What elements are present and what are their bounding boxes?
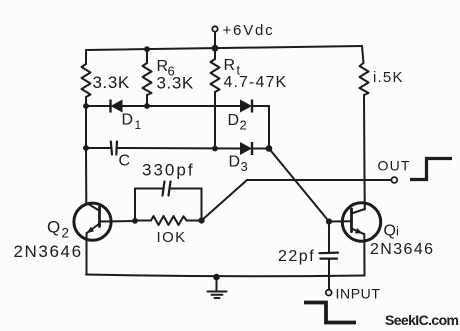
node supply tap junction [212,45,219,52]
svg-text:i.5K: i.5K [373,69,404,86]
wire 10K right stem [187,220,202,222]
node ground junction [213,274,220,281]
svg-text:SeekIC.com: SeekIC.com [385,312,459,328]
wire 330pf loop right vertical [201,189,203,221]
svg-text:D: D [229,154,241,171]
wire D2-D3 right vertical [268,106,270,149]
svg-text:C: C [119,153,131,170]
svg-text:IOK: IOK [157,229,187,246]
svg-text:D: D [122,112,134,129]
resistor Rt zigzag [211,59,220,92]
wire Rt top stem [214,48,216,59]
svg-text:330pf: 330pf [142,161,195,180]
capacitor C2 330pf plates [163,182,171,196]
node D3 cathode junction [266,145,273,152]
resistor R1 3.3K zigzag [82,64,91,97]
terminal +6Vdc open circle [212,26,217,31]
wire right rail top [362,46,364,63]
svg-text:R: R [157,58,169,75]
wire Q1 emitter [363,234,365,276]
svg-text:OUT: OUT [378,158,411,174]
svg-text:22pf: 22pf [278,248,315,265]
wire ground rail [86,275,364,277]
svg-text:2: 2 [240,118,247,133]
node row1 left junction [83,103,89,109]
node Q1 base junction [326,218,332,224]
wire top supply rail [86,46,362,50]
svg-text:Q: Q [47,218,60,237]
node Q2 base junction [132,218,138,224]
svg-text:3.3K: 3.3K [93,73,130,92]
diode D1 [111,100,123,113]
diode D3 [240,142,252,155]
waveform OUT step [410,159,452,180]
node 10K right junction [198,217,204,223]
wire left rail upper [85,50,87,64]
diode D2 [240,100,252,113]
wire Q2 base lead [100,220,136,223]
terminal INPUT open circle [326,290,332,296]
svg-text:Q: Q [384,223,396,240]
resistor R4 1.5K zigzag [360,63,369,95]
wire diagonal 10K node to OUT line [202,180,248,221]
wire R6 bottom stem [146,95,148,106]
wire 10K left stem [135,220,151,222]
node Rt bottom junction [212,146,218,152]
wire row1 left segment [86,105,111,107]
svg-text:3.3K: 3.3K [157,74,194,93]
wire row1 right segment [252,105,269,107]
transistor Q1 [342,203,380,241]
svg-text:2N3646: 2N3646 [370,241,434,258]
wire R6 top stem [146,50,148,64]
svg-text:R: R [224,57,236,74]
svg-text:D: D [228,112,240,129]
svg-text:i: i [396,224,399,239]
wire 330pf loop left vertical [134,189,136,221]
wire row2 right segment [252,148,269,150]
wire row2 middle segment [118,147,241,150]
svg-text:+6Vdc: +6Vdc [223,22,275,39]
svg-text:1: 1 [135,118,142,132]
wire Q2 collector [85,148,87,203]
wire ground symbol stem [216,277,218,291]
capacitor C [111,142,117,155]
resistor R6 zigzag [143,63,152,95]
svg-text:INPUT: INPUT [336,286,381,302]
svg-text:3: 3 [241,159,248,174]
wire Q1 base lead [329,220,352,222]
wire row2 left segment [86,147,110,149]
node R6 bottom junction [144,103,150,109]
wire Rt bottom stem [214,92,216,149]
node R6 top junction [144,46,150,52]
wire +6Vdc stem [214,32,216,49]
wire 330pf loop top left [135,188,162,190]
wire 330pf loop top right [171,188,202,190]
wire Q1 collector [363,95,366,210]
svg-text:2: 2 [62,226,70,241]
transistor Q2 [74,203,111,240]
wire diagonal to Q1 base node [269,149,329,222]
wire OUT line [247,179,391,181]
ground symbol bars [208,292,227,299]
wire input vertical upper [328,222,330,253]
wire input vertical lower [328,260,330,290]
waveform INPUT step [304,303,356,323]
resistor R3 10K zigzag [151,216,187,225]
wire Q2 emitter [86,240,88,275]
terminal OUT open circle [391,177,397,183]
wire left rail middle [85,97,87,148]
wire row1 middle segment [123,105,241,107]
svg-text:4.7-47K: 4.7-47K [224,74,288,91]
capacitor C3 22pf plates [320,253,339,259]
node row2 left junction [83,145,89,151]
svg-text:2N3646: 2N3646 [14,242,83,261]
